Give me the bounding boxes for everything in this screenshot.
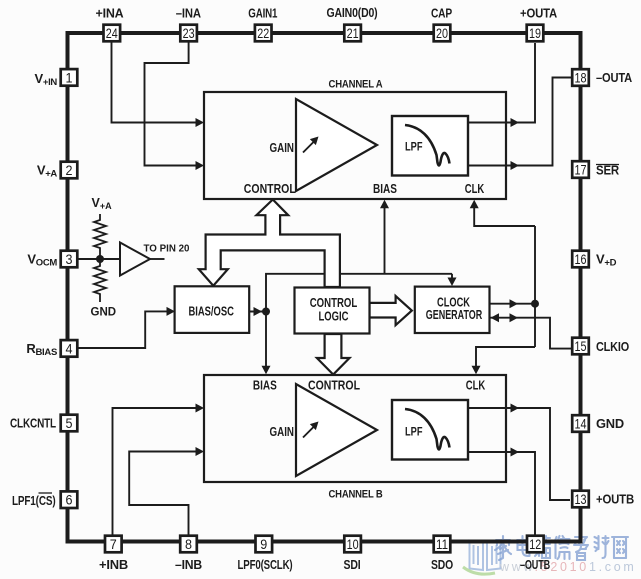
- control pipe logic to channel B: [317, 334, 350, 375]
- junction dot clk bus: [531, 300, 539, 308]
- buffer amplifier (vocm): [120, 243, 150, 276]
- pin 17 SER: [572, 161, 589, 178]
- wire clock generator output to CLK bus: [490, 303, 536, 305]
- svg-text:2: 2: [66, 162, 73, 178]
- wire VOCM pin3 to buffer: [78, 258, 120, 260]
- channel B box: [204, 375, 506, 482]
- pin 15 CLKIO: [572, 338, 589, 355]
- svg-text:LPF1(CS): LPF1(CS): [12, 493, 56, 508]
- pin 3 VOCM: [61, 251, 78, 268]
- wire +OUTA LPF A to pin19: [467, 43, 535, 123]
- svg-text:GENERATOR: GENERATOR: [426, 308, 483, 322]
- pin 24 +INA: [104, 25, 121, 42]
- pin 19 +OUTA: [527, 25, 544, 42]
- svg-text:3: 3: [66, 251, 73, 267]
- wire CLK bus to channel A clk: [474, 206, 535, 226]
- svg-text:24: 24: [106, 25, 118, 41]
- pin 18 –OUTA: [572, 69, 589, 86]
- svg-text:17: 17: [575, 162, 587, 178]
- svg-text:CLK: CLK: [465, 182, 485, 196]
- svg-text:GAIN0(D0): GAIN0(D0): [327, 5, 378, 20]
- svg-text:SDO: SDO: [431, 557, 453, 572]
- svg-text:18: 18: [575, 70, 587, 86]
- wire bias node down to channel B bias: [265, 312, 267, 369]
- pin 4 RBIAS: [61, 340, 78, 357]
- svg-text:–INB: –INB: [175, 557, 202, 572]
- pin 23 –INA: [180, 25, 197, 42]
- lpf curve A: [405, 125, 450, 165]
- svg-text:CLK: CLK: [466, 379, 486, 393]
- svg-text:GND: GND: [596, 416, 624, 431]
- wire CLK bus to channel B clk: [476, 347, 535, 368]
- svg-text:+OUTB: +OUTB: [596, 492, 634, 507]
- pin 12 –OUTB: [527, 536, 544, 553]
- svg-text:13: 13: [575, 491, 587, 507]
- lpf curve B: [405, 409, 450, 449]
- svg-text:CONTROL: CONTROL: [244, 182, 296, 196]
- svg-text:LPF: LPF: [405, 140, 423, 154]
- svg-text:8: 8: [185, 536, 192, 552]
- wire +INA pin24 to channel A input 1: [112, 42, 197, 123]
- svg-text:15: 15: [575, 338, 587, 354]
- watermark book icon: [470, 541, 501, 571]
- svg-text:22: 22: [257, 25, 269, 41]
- svg-text:6: 6: [66, 492, 73, 508]
- wire -INB pin8 to channel B input 2: [129, 452, 196, 536]
- svg-text:SDI: SDI: [344, 557, 361, 572]
- pin 11 SDO: [434, 536, 451, 553]
- wire CLKIO pin15 to clock generator (bidirectional): [490, 318, 572, 349]
- svg-text:BIAS/OSC: BIAS/OSC: [188, 304, 234, 318]
- svg-text:16: 16: [575, 251, 587, 267]
- svg-text:TO PIN 20: TO PIN 20: [144, 243, 190, 255]
- wire +OUTB LPF B to pin13: [467, 408, 570, 500]
- op-amp triangle channel B: [296, 384, 377, 476]
- svg-text:+INB: +INB: [99, 557, 128, 572]
- pin 21 GAIN0(D0): [344, 25, 361, 42]
- LPF box channel A: [392, 116, 468, 176]
- pin 1 V+IN: [61, 69, 78, 86]
- wire CLK bus vertical: [534, 226, 536, 347]
- svg-text:GND: GND: [91, 307, 117, 319]
- resistor lower (vocm node to GND): [94, 259, 106, 302]
- pin 9 LPF0(SCLK): [256, 536, 273, 553]
- pin 8 –INB: [180, 536, 197, 553]
- svg-text:9: 9: [260, 536, 267, 552]
- overline SER: [596, 164, 619, 166]
- pin 6 LPF1(CS): [61, 491, 78, 508]
- wire -OUTB LPF B to pin12: [467, 452, 535, 536]
- svg-text:BIAS: BIAS: [373, 182, 397, 196]
- wire bias to clock generator top: [451, 274, 453, 280]
- wire +INB pin7 to channel B input 1: [113, 408, 197, 536]
- svg-text:–OUTA: –OUTA: [596, 70, 632, 85]
- pin 13 +OUTB: [572, 491, 589, 508]
- svg-text:GAIN1: GAIN1: [248, 6, 277, 21]
- pin 16 V+D: [572, 251, 589, 268]
- svg-text:GAIN: GAIN: [270, 425, 295, 439]
- svg-text:CHANNEL A: CHANNEL A: [329, 79, 383, 91]
- wire buffer output: [150, 258, 165, 260]
- svg-text:CHANNEL B: CHANNEL B: [329, 489, 383, 501]
- junction dot vocm: [96, 255, 104, 263]
- control bus pipe (channel A control / bias-osc / control logic): [199, 200, 340, 288]
- svg-text:10: 10: [347, 536, 359, 552]
- svg-text:7: 7: [110, 536, 117, 552]
- pin 22 GAIN1: [255, 25, 272, 42]
- svg-text:LOGIC: LOGIC: [319, 309, 349, 323]
- chip package outline: [68, 33, 581, 542]
- svg-text:BIAS: BIAS: [253, 379, 277, 393]
- svg-text:CONTROL: CONTROL: [310, 296, 358, 310]
- svg-text:LPF0(SCLK): LPF0(SCLK): [238, 557, 293, 572]
- svg-text:CAP: CAP: [431, 6, 453, 21]
- pin 2 V+A: [61, 162, 78, 179]
- svg-text:LPF: LPF: [405, 425, 423, 439]
- svg-text:–OUTB: –OUTB: [520, 557, 550, 572]
- control pipe logic to clock generator: [370, 296, 412, 325]
- wire bias to channel A bias: [384, 206, 386, 274]
- resistor upper (V+A to vocm node): [94, 214, 106, 259]
- op-amp triangle channel A: [296, 99, 377, 191]
- svg-text:CLKCNTL: CLKCNTL: [10, 416, 56, 431]
- pin 14 GND: [572, 415, 589, 432]
- wire bias node up and right: [266, 274, 452, 312]
- watermark green swoosh: [463, 567, 495, 574]
- LPF box channel B: [392, 400, 468, 460]
- BIAS/OSC block: [175, 286, 250, 333]
- svg-text:23: 23: [183, 25, 195, 41]
- pin 20 CAP: [434, 25, 451, 42]
- svg-text:20: 20: [436, 25, 448, 41]
- svg-text:21: 21: [347, 25, 359, 41]
- wire -OUTA LPF A to pin18: [467, 78, 571, 166]
- CLOCK GENERATOR block: [415, 287, 490, 333]
- svg-text:5: 5: [66, 415, 73, 431]
- junction dot bias node: [262, 308, 270, 316]
- svg-text:14: 14: [575, 416, 587, 432]
- pin 5 CLKCNTL: [61, 415, 78, 432]
- svg-text:CONTROL: CONTROL: [308, 379, 360, 393]
- pin 10 SDI: [344, 536, 361, 553]
- gain arrow B: [303, 427, 314, 438]
- wire -INA pin23 to channel A input 2: [145, 42, 197, 166]
- svg-text:CLKIO: CLKIO: [596, 339, 629, 354]
- gain arrow A: [303, 142, 314, 153]
- wire BIAS/OSC output to bias node: [250, 311, 267, 313]
- svg-text:–INA: –INA: [176, 6, 201, 21]
- svg-text:GAIN: GAIN: [270, 141, 295, 155]
- svg-text:11: 11: [436, 536, 448, 552]
- svg-text:19: 19: [529, 25, 541, 41]
- svg-text:12: 12: [529, 536, 541, 552]
- svg-text:4: 4: [66, 340, 73, 356]
- svg-text:+OUTA: +OUTA: [520, 6, 557, 21]
- watermark chinese characters: [495, 536, 628, 560]
- channel A box: [204, 92, 506, 199]
- CONTROL LOGIC block: [295, 288, 370, 334]
- svg-text:1: 1: [66, 69, 73, 85]
- overline CS: [39, 492, 53, 494]
- svg-text:+INA: +INA: [96, 6, 124, 21]
- pin 7 +INB: [105, 536, 122, 553]
- wire RBIAS pin4 to BIAS/OSC: [78, 311, 168, 348]
